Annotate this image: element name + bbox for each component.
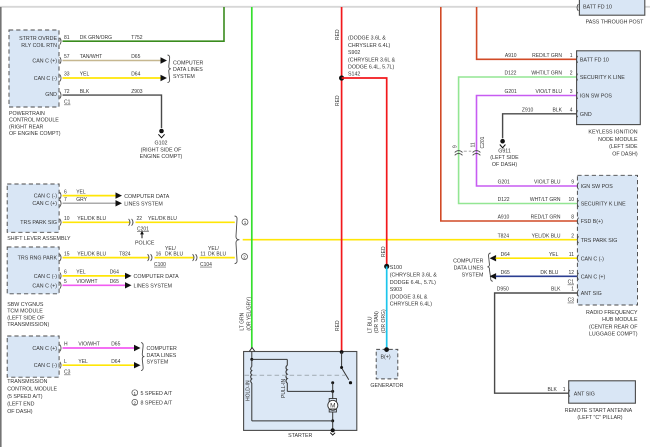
- svg-text:YEL/DK BLU: YEL/DK BLU: [532, 233, 561, 239]
- starter case ground: [330, 428, 335, 435]
- wire 6 YEL (shift lever, to computer data lines): [63, 189, 170, 200]
- in-line connector C100: [148, 246, 184, 268]
- wire pull-in to motor junction: [287, 390, 334, 393]
- svg-text:S902: S902: [348, 50, 360, 56]
- antenna wire labels: [547, 387, 565, 393]
- svg-text:5 SPEED A/T: 5 SPEED A/T: [141, 391, 174, 397]
- svg-text:VIO/WHT: VIO/WHT: [76, 279, 97, 285]
- transmission control module (box): [7, 336, 59, 377]
- svg-text:1: 1: [134, 391, 137, 396]
- svg-text:VIO/WHT: VIO/WHT: [78, 342, 99, 348]
- wire A910 RED/LT GRN (top border to RF hub pin 8): [441, 7, 578, 221]
- radio frequency hub module label: [586, 310, 638, 338]
- svg-text:(CHRYSLER 3.6L &: (CHRYSLER 3.6L &: [348, 57, 396, 63]
- svg-text:(DODGE 3.6L &: (DODGE 3.6L &: [348, 36, 386, 42]
- svg-text:COMPUTER DATA: COMPUTER DATA: [124, 194, 170, 200]
- RF hub pin 11 bracket: [577, 255, 578, 262]
- wire T824 YEL/DK BLU (brace to RF hub pin 2): [243, 239, 578, 241]
- shift lever pin 10 bracket: [60, 219, 61, 226]
- svg-text:YEL/DK BLU: YEL/DK BLU: [77, 251, 106, 257]
- svg-text:CAN C (+): CAN C (+): [32, 283, 57, 289]
- PCM computer data lines brace: [168, 55, 204, 83]
- svg-text:RED: RED: [381, 246, 387, 257]
- TCM connector C3 label: [64, 370, 71, 376]
- top page border: [0, 6, 650, 8]
- svg-text:D64: D64: [131, 72, 140, 78]
- keyless pin 1 bracket: [576, 56, 577, 63]
- svg-text:C3: C3: [64, 370, 71, 376]
- wire Z910 BLK (keyless pin 4 to ground G911): [503, 108, 577, 139]
- starter solenoid switch: [340, 350, 352, 384]
- wire 16 YEL/DK BLU (C100 to C104): [155, 257, 194, 259]
- svg-text:(LEFT SIDE: (LEFT SIDE: [609, 144, 638, 150]
- svg-text:LINES SYSTEM: LINES SYSTEM: [134, 284, 173, 290]
- svg-text:D65: D65: [131, 54, 140, 60]
- svg-text:1: 1: [563, 387, 566, 393]
- svg-text:G911: G911: [498, 148, 511, 154]
- svg-text:SBW CYGNUS: SBW CYGNUS: [7, 302, 44, 308]
- labels for G201 at RF hub pin 9: [498, 180, 575, 186]
- svg-text:C104: C104: [200, 262, 212, 268]
- shift lever assembly (box): [7, 184, 59, 232]
- wire 7 GRY (shift lever, to computer data lines): [63, 197, 163, 208]
- in-line connector 9 (C201) on D122: [453, 145, 472, 155]
- wire LT BLU (OR TAN) (OR ORG) to generator: [386, 266, 388, 348]
- svg-text:9: 9: [571, 180, 574, 186]
- svg-text:33: 33: [64, 72, 70, 78]
- svg-text:TRANSMISSION: TRANSMISSION: [7, 379, 47, 385]
- svg-text:11: 11: [471, 142, 477, 147]
- svg-text:C100: C100: [154, 262, 166, 268]
- generator (box): [376, 349, 398, 379]
- TCM computer data lines brace: [141, 343, 177, 371]
- svg-text:YEL: YEL: [80, 72, 90, 78]
- svg-text:LUGGAGE COMPT): LUGGAGE COMPT): [589, 332, 638, 338]
- svg-text:GND: GND: [580, 112, 592, 118]
- svg-text:BLK: BLK: [547, 387, 557, 393]
- wire RED main vertical (top border to starter): [341, 7, 343, 352]
- RF hub pin 8 bracket: [577, 218, 578, 225]
- generator label: [370, 383, 403, 389]
- svg-text:CAN C (+): CAN C (+): [581, 275, 606, 281]
- wire D65 DK BLU (computer data lines to RF hub pin 12): [490, 270, 578, 286]
- keyless pin 4 bracket: [576, 110, 577, 117]
- svg-text:(OR YEL/GRY): (OR YEL/GRY): [246, 297, 252, 331]
- svg-text:TRS PARK SIG: TRS PARK SIG: [20, 220, 57, 226]
- RED label middle: [335, 95, 341, 106]
- svg-text:YEL: YEL: [76, 189, 86, 195]
- svg-text:BLK: BLK: [553, 108, 563, 114]
- svg-text:15: 15: [64, 251, 70, 257]
- svg-text:RADIO FREQUENCY: RADIO FREQUENCY: [586, 310, 638, 316]
- wire D64 YEL (computer data lines to RF hub pin 11): [490, 252, 578, 262]
- svg-text:CONTROL MODULE: CONTROL MODULE: [9, 118, 59, 124]
- svg-text:C1: C1: [568, 280, 575, 286]
- svg-text:D122: D122: [505, 71, 517, 77]
- PCM pin 72 bracket: [60, 92, 61, 99]
- svg-text:SECURITY K LINE: SECURITY K LINE: [580, 75, 625, 81]
- svg-text:(CHRYSLER 3.6L &: (CHRYSLER 3.6L &: [390, 273, 438, 279]
- wire 10 YEL/DK BLU to C201: [63, 216, 130, 222]
- svg-text:CAN C (+): CAN C (+): [32, 346, 57, 352]
- svg-text:(RIGHT REAR: (RIGHT REAR: [9, 124, 44, 130]
- generator B(+) terminal node: [384, 347, 389, 352]
- svg-text:YEL/DK BLU: YEL/DK BLU: [77, 216, 106, 222]
- svg-text:FSD B(+): FSD B(+): [581, 219, 603, 225]
- svg-text:D950: D950: [497, 287, 509, 293]
- svg-text:YEL: YEL: [549, 252, 559, 258]
- svg-text:(5 SPEED A/T): (5 SPEED A/T): [7, 394, 43, 400]
- svg-text:CAN C (+): CAN C (+): [32, 58, 57, 64]
- wire LT BLU vertical label: [367, 309, 387, 333]
- RED label on branch: [381, 246, 387, 257]
- remote start antenna label: [565, 408, 633, 421]
- svg-text:IGN SW POS: IGN SW POS: [581, 184, 614, 190]
- svg-text:PULL-IN: PULL-IN: [281, 378, 287, 398]
- wire 5 VIO/WHT D65 (SBW, to computer data lines): [63, 279, 173, 290]
- wire D950 BLK (RF hub pin 1 to remote start antenna): [495, 287, 578, 394]
- svg-text:(OR ORG): (OR ORG): [381, 309, 387, 333]
- svg-text:OF DASH): OF DASH): [612, 152, 638, 158]
- wire 11 YEL/DK BLU (C104 to brace, circuit 2): [200, 257, 235, 259]
- pass through post label: [586, 20, 645, 26]
- svg-text:11: 11: [200, 251, 205, 257]
- wire H VIO/WHT D65 (TCM): [63, 342, 141, 352]
- shift lever pin 7 bracket: [60, 200, 61, 207]
- PCM pin 33 bracket: [60, 75, 61, 82]
- starter internal node (hold-in / pull-in tee): [250, 358, 287, 366]
- svg-text:ANT SIG: ANT SIG: [581, 291, 602, 297]
- wire 22 YEL/DK BLU (C201 to brace, circuit 1): [136, 221, 235, 223]
- svg-text:SECURITY K LINE: SECURITY K LINE: [581, 202, 626, 208]
- svg-text:D65: D65: [110, 279, 119, 285]
- svg-text:DATA LINES: DATA LINES: [454, 266, 484, 272]
- svg-text:4: 4: [570, 108, 573, 114]
- svg-text:BLK: BLK: [551, 287, 561, 293]
- svg-text:6: 6: [64, 270, 67, 276]
- svg-text:DK BLU: DK BLU: [165, 251, 183, 257]
- svg-text:RED: RED: [335, 95, 341, 106]
- svg-text:VIO/LT BLU: VIO/LT BLU: [534, 180, 561, 186]
- left page border: [0, 7, 2, 447]
- RF hub pin 9 bracket: [577, 183, 578, 190]
- svg-text:PASS THROUGH POST: PASS THROUGH POST: [586, 20, 645, 26]
- RED label upper: [335, 29, 341, 40]
- svg-text:2: 2: [134, 400, 137, 405]
- svg-text:16: 16: [156, 251, 162, 257]
- TCM pin H bracket: [60, 345, 61, 352]
- shift lever pin 6 bracket: [60, 192, 61, 199]
- SBW pin 6 bracket: [60, 273, 61, 280]
- wire 15 YEL/DK BLU T824 to C100: [63, 251, 149, 257]
- svg-text:IGN SW POS: IGN SW POS: [580, 94, 613, 100]
- svg-text:B(+): B(+): [381, 355, 391, 361]
- circled note 1 (at circuit 1 wire): [242, 219, 248, 225]
- TCM pin L bracket: [60, 362, 61, 369]
- svg-text:L: L: [64, 359, 67, 365]
- svg-text:CHRYSLER 6.4L): CHRYSLER 6.4L): [348, 43, 391, 49]
- svg-text:CHRYSLER 6.4L): CHRYSLER 6.4L): [390, 302, 433, 308]
- PCM pin 81 bracket: [60, 38, 61, 45]
- wire RED branch (splice to S100): [342, 78, 387, 266]
- svg-text:STRTR OVRDE: STRTR OVRDE: [19, 36, 57, 42]
- pass through post (box, cut off at top): [577, 0, 645, 15]
- svg-text:(LEFT END: (LEFT END: [7, 401, 34, 407]
- wire 57 TAN/WHT D65: [63, 54, 168, 64]
- svg-text:C201: C201: [480, 136, 486, 148]
- svg-text:(LEFT SIDE: (LEFT SIDE: [490, 155, 519, 161]
- svg-text:RED/LT GRN: RED/LT GRN: [531, 215, 561, 221]
- svg-text:OF DASH): OF DASH): [492, 162, 518, 168]
- svg-text:A910: A910: [498, 215, 510, 221]
- svg-text:WHT/LT GRN: WHT/LT GRN: [530, 197, 561, 203]
- svg-text:TAN/WHT: TAN/WHT: [80, 54, 102, 60]
- circled note 2 (at circuit 2 wire): [242, 254, 248, 260]
- svg-text:OF DASH): OF DASH): [7, 409, 33, 415]
- svg-text:7: 7: [64, 197, 67, 203]
- svg-text:CAN C (+): CAN C (+): [32, 201, 57, 207]
- svg-text:81: 81: [64, 35, 70, 41]
- svg-text:CAN C (-): CAN C (-): [34, 363, 57, 369]
- powertrain control module (box): [9, 30, 59, 107]
- svg-text:DODGE 6.4L, 5.7L): DODGE 6.4L, 5.7L): [390, 280, 436, 286]
- starter green feed entry arrow: [249, 348, 255, 360]
- svg-text:1: 1: [571, 287, 574, 293]
- in-line connector C104: [193, 246, 227, 268]
- svg-text:REMOTE START ANTENNA: REMOTE START ANTENNA: [565, 408, 633, 414]
- starter (box): [244, 352, 357, 431]
- svg-text:8 SPEED A/T: 8 SPEED A/T: [141, 401, 174, 407]
- svg-text:D122: D122: [498, 197, 510, 203]
- svg-text:TCM MODULE: TCM MODULE: [7, 309, 43, 315]
- svg-text:TRANSMISSION): TRANSMISSION): [7, 322, 49, 328]
- svg-text:8: 8: [571, 215, 574, 221]
- svg-text:G102: G102: [155, 141, 168, 147]
- svg-text:2: 2: [243, 255, 246, 260]
- radio frequency hub module (box): [577, 175, 637, 305]
- svg-text:D64: D64: [501, 252, 510, 258]
- svg-text:H: H: [64, 342, 68, 348]
- svg-text:GND: GND: [45, 92, 57, 98]
- transmission control module label: [7, 379, 57, 415]
- svg-text:RED: RED: [335, 29, 341, 40]
- svg-text:(DODGE 3.6L &: (DODGE 3.6L &: [390, 294, 428, 300]
- svg-text:OF ENGINE COMPT): OF ENGINE COMPT): [9, 131, 61, 137]
- brace joining circuits 1 and 2: [235, 216, 240, 264]
- svg-text:TRS PARK SIG: TRS PARK SIG: [581, 238, 618, 244]
- svg-text:(CENTER REAR OF: (CENTER REAR OF: [589, 324, 638, 330]
- RED label lower: [335, 320, 341, 331]
- svg-text:DK BLU: DK BLU: [540, 270, 558, 276]
- svg-text:YEL: YEL: [78, 359, 88, 365]
- starter internal dashed reference line: [245, 374, 345, 376]
- svg-text:BATT FD 10: BATT FD 10: [580, 58, 609, 64]
- RF hub pin 1 bracket: [577, 290, 578, 297]
- SBW cygnus TCM module (box): [7, 247, 59, 294]
- svg-text:9: 9: [453, 145, 459, 148]
- svg-text:2: 2: [571, 233, 574, 239]
- splice S100 / S903: [384, 264, 437, 308]
- svg-text:22: 22: [137, 216, 143, 222]
- svg-text:SYSTEM: SYSTEM: [147, 360, 169, 366]
- svg-text:D64: D64: [110, 270, 119, 276]
- RF hub pin 2 bracket: [577, 236, 578, 243]
- svg-text:12: 12: [568, 270, 574, 276]
- ground G911: [490, 139, 519, 168]
- svg-text:RLY COIL RTN: RLY COIL RTN: [21, 43, 57, 49]
- PCM connector C1 label: [64, 100, 71, 106]
- svg-text:S142: S142: [348, 72, 360, 78]
- wire G201 VIO/LT BLU (keyless pin 3 to RF hub pin 9): [477, 89, 578, 186]
- keyless pin 3 bracket: [576, 92, 577, 99]
- svg-text:TRS RNG PARK: TRS RNG PARK: [18, 256, 58, 262]
- SBW pin 15 bracket: [60, 254, 61, 261]
- svg-text:LT BLU: LT BLU: [367, 316, 373, 333]
- keyless pin 2 bracket: [576, 74, 577, 81]
- antenna pin 1 bracket: [569, 390, 570, 397]
- svg-text:YEL/DK BLU: YEL/DK BLU: [148, 216, 177, 222]
- svg-text:DK GRN/ORG: DK GRN/ORG: [80, 35, 112, 41]
- splice S902 / S142: [339, 36, 396, 81]
- in-line connector C201 (police): [129, 216, 178, 232]
- svg-text:2: 2: [570, 71, 573, 77]
- labels for D122 at RF hub pin 10: [498, 197, 575, 203]
- wire L YEL D64 (TCM): [63, 359, 141, 369]
- svg-text:GENERATOR: GENERATOR: [370, 383, 403, 389]
- svg-text:WHT/LT GRN: WHT/LT GRN: [531, 71, 562, 77]
- svg-text:BLK: BLK: [80, 89, 90, 95]
- svg-text:ANT SIG: ANT SIG: [574, 391, 595, 397]
- svg-text:HOLD-IN: HOLD-IN: [246, 380, 252, 401]
- svg-text:S100: S100: [390, 265, 402, 271]
- RF hub pin 12 bracket: [577, 273, 578, 280]
- svg-text:72: 72: [64, 89, 70, 95]
- police arrow note: [135, 231, 155, 247]
- svg-text:CAN C (-): CAN C (-): [34, 76, 57, 82]
- svg-text:YEL: YEL: [76, 270, 86, 276]
- svg-text:DODGE 6.4L, 5.7L): DODGE 6.4L, 5.7L): [348, 65, 394, 71]
- svg-text:5: 5: [64, 279, 67, 285]
- RF hub pin 10 bracket: [577, 200, 578, 207]
- svg-text:SYSTEM: SYSTEM: [462, 273, 484, 279]
- svg-text:GRY: GRY: [76, 197, 87, 203]
- svg-text:VIO/LT BLU: VIO/LT BLU: [536, 89, 563, 95]
- motor M: [328, 399, 338, 413]
- wire LT GRN (OR YEL/GRY) vertical to starter: [251, 7, 253, 348]
- svg-text:CONTROL MODULE: CONTROL MODULE: [7, 387, 57, 393]
- svg-text:C3: C3: [568, 298, 575, 304]
- svg-text:6: 6: [64, 189, 67, 195]
- svg-text:(LEFT SIDE OF: (LEFT SIDE OF: [7, 315, 45, 321]
- powertrain control module label: [9, 111, 61, 137]
- svg-text:3: 3: [570, 89, 573, 95]
- svg-text:S903: S903: [390, 287, 402, 293]
- svg-text:C201: C201: [137, 226, 149, 232]
- computer data lines brace (right): [453, 253, 493, 281]
- svg-text:(OR TAN): (OR TAN): [374, 311, 380, 333]
- labels for T824 at RF hub pin 2: [498, 233, 575, 239]
- wire LT GRN vertical label: [240, 297, 253, 331]
- wire 81 DK GRN/ORG T752 (to top border): [63, 7, 225, 41]
- svg-text:LINES SYSTEM: LINES SYSTEM: [124, 202, 163, 208]
- svg-text:G201: G201: [498, 180, 510, 186]
- svg-text:DK BLU: DK BLU: [208, 251, 226, 257]
- SBW cygnus TCM module label: [7, 302, 49, 328]
- svg-text:RED: RED: [335, 320, 341, 331]
- svg-text:Z903: Z903: [131, 89, 143, 95]
- svg-text:COMPUTER: COMPUTER: [453, 258, 483, 264]
- wire 72 BLK Z903 to ground: [63, 89, 162, 128]
- svg-text:ENGINE COMPT): ENGINE COMPT): [140, 154, 183, 160]
- svg-text:A910: A910: [505, 53, 517, 59]
- svg-text:SYSTEM: SYSTEM: [173, 74, 195, 80]
- svg-text:COMPUTER DATA: COMPUTER DATA: [134, 274, 180, 280]
- pull-in coil: [281, 365, 287, 398]
- legend note 1: 5 speed A/T: [132, 390, 173, 397]
- svg-text:COMPUTER: COMPUTER: [147, 346, 177, 352]
- svg-text:KEYLESS IGNITION: KEYLESS IGNITION: [588, 130, 637, 136]
- wire A910 RED/LT GRN (top border to keyless pin 1): [477, 7, 577, 59]
- remote start antenna (box): [569, 381, 636, 403]
- svg-text:POLICE: POLICE: [135, 241, 155, 247]
- svg-text:1: 1: [570, 53, 573, 59]
- svg-text:BATT FD 10: BATT FD 10: [583, 5, 612, 11]
- svg-text:CAN C (-): CAN C (-): [581, 256, 604, 262]
- svg-text:NODE MODULE: NODE MODULE: [598, 137, 638, 143]
- svg-text:POWERTRAIN: POWERTRAIN: [9, 111, 45, 117]
- svg-text:D65: D65: [501, 270, 510, 276]
- svg-text:(RIGHT SIDE OF: (RIGHT SIDE OF: [141, 147, 183, 153]
- shift lever assembly label: [7, 236, 71, 242]
- svg-text:COMPUTER: COMPUTER: [173, 60, 203, 66]
- svg-text:G201: G201: [505, 89, 517, 95]
- legend note 2: 8 speed A/T: [132, 399, 173, 406]
- svg-text:LT GRN: LT GRN: [240, 312, 246, 330]
- wire D122 WHT/LT GRN (keyless pin 2 to RF hub pin 10): [459, 71, 578, 204]
- PCM pin 57 bracket: [60, 57, 61, 64]
- svg-text:D64: D64: [111, 359, 120, 365]
- keyless ignition node module label: [588, 130, 638, 158]
- svg-text:10: 10: [568, 197, 574, 203]
- ground G102: [140, 129, 183, 161]
- svg-text:T824: T824: [119, 251, 131, 257]
- wire 6 YEL D64 (SBW, to computer data lines): [63, 270, 180, 281]
- svg-text:CAN C (-): CAN C (-): [34, 274, 57, 280]
- svg-text:DATA LINES: DATA LINES: [147, 353, 177, 359]
- in-line connector 11 (C201) on G201: [471, 136, 486, 155]
- svg-text:HUB MODULE: HUB MODULE: [602, 317, 638, 323]
- svg-text:RED/LT GRN: RED/LT GRN: [532, 53, 562, 59]
- svg-text:C1: C1: [64, 100, 71, 106]
- svg-text:Z910: Z910: [522, 108, 534, 114]
- svg-text:11: 11: [569, 252, 574, 258]
- starter motor contact node: [331, 381, 334, 398]
- svg-text:T752: T752: [131, 35, 143, 41]
- svg-text:SHIFT LEVER ASSEMBLY: SHIFT LEVER ASSEMBLY: [7, 236, 71, 242]
- keyless ignition node module (box): [577, 51, 641, 125]
- svg-text:10: 10: [64, 216, 70, 222]
- SBW pin 5 bracket: [60, 282, 61, 289]
- svg-text:CAN C (-): CAN C (-): [34, 194, 57, 200]
- svg-text:1: 1: [244, 220, 247, 225]
- svg-text:T824: T824: [498, 233, 510, 239]
- svg-text:(LEFT "C" PILLAR): (LEFT "C" PILLAR): [577, 415, 622, 421]
- wire motor to starter ground: [252, 383, 334, 430]
- svg-text:D65: D65: [111, 342, 120, 348]
- starter label: [288, 433, 312, 439]
- hold-in coil: [246, 359, 252, 401]
- svg-text:DATA LINES: DATA LINES: [173, 67, 203, 73]
